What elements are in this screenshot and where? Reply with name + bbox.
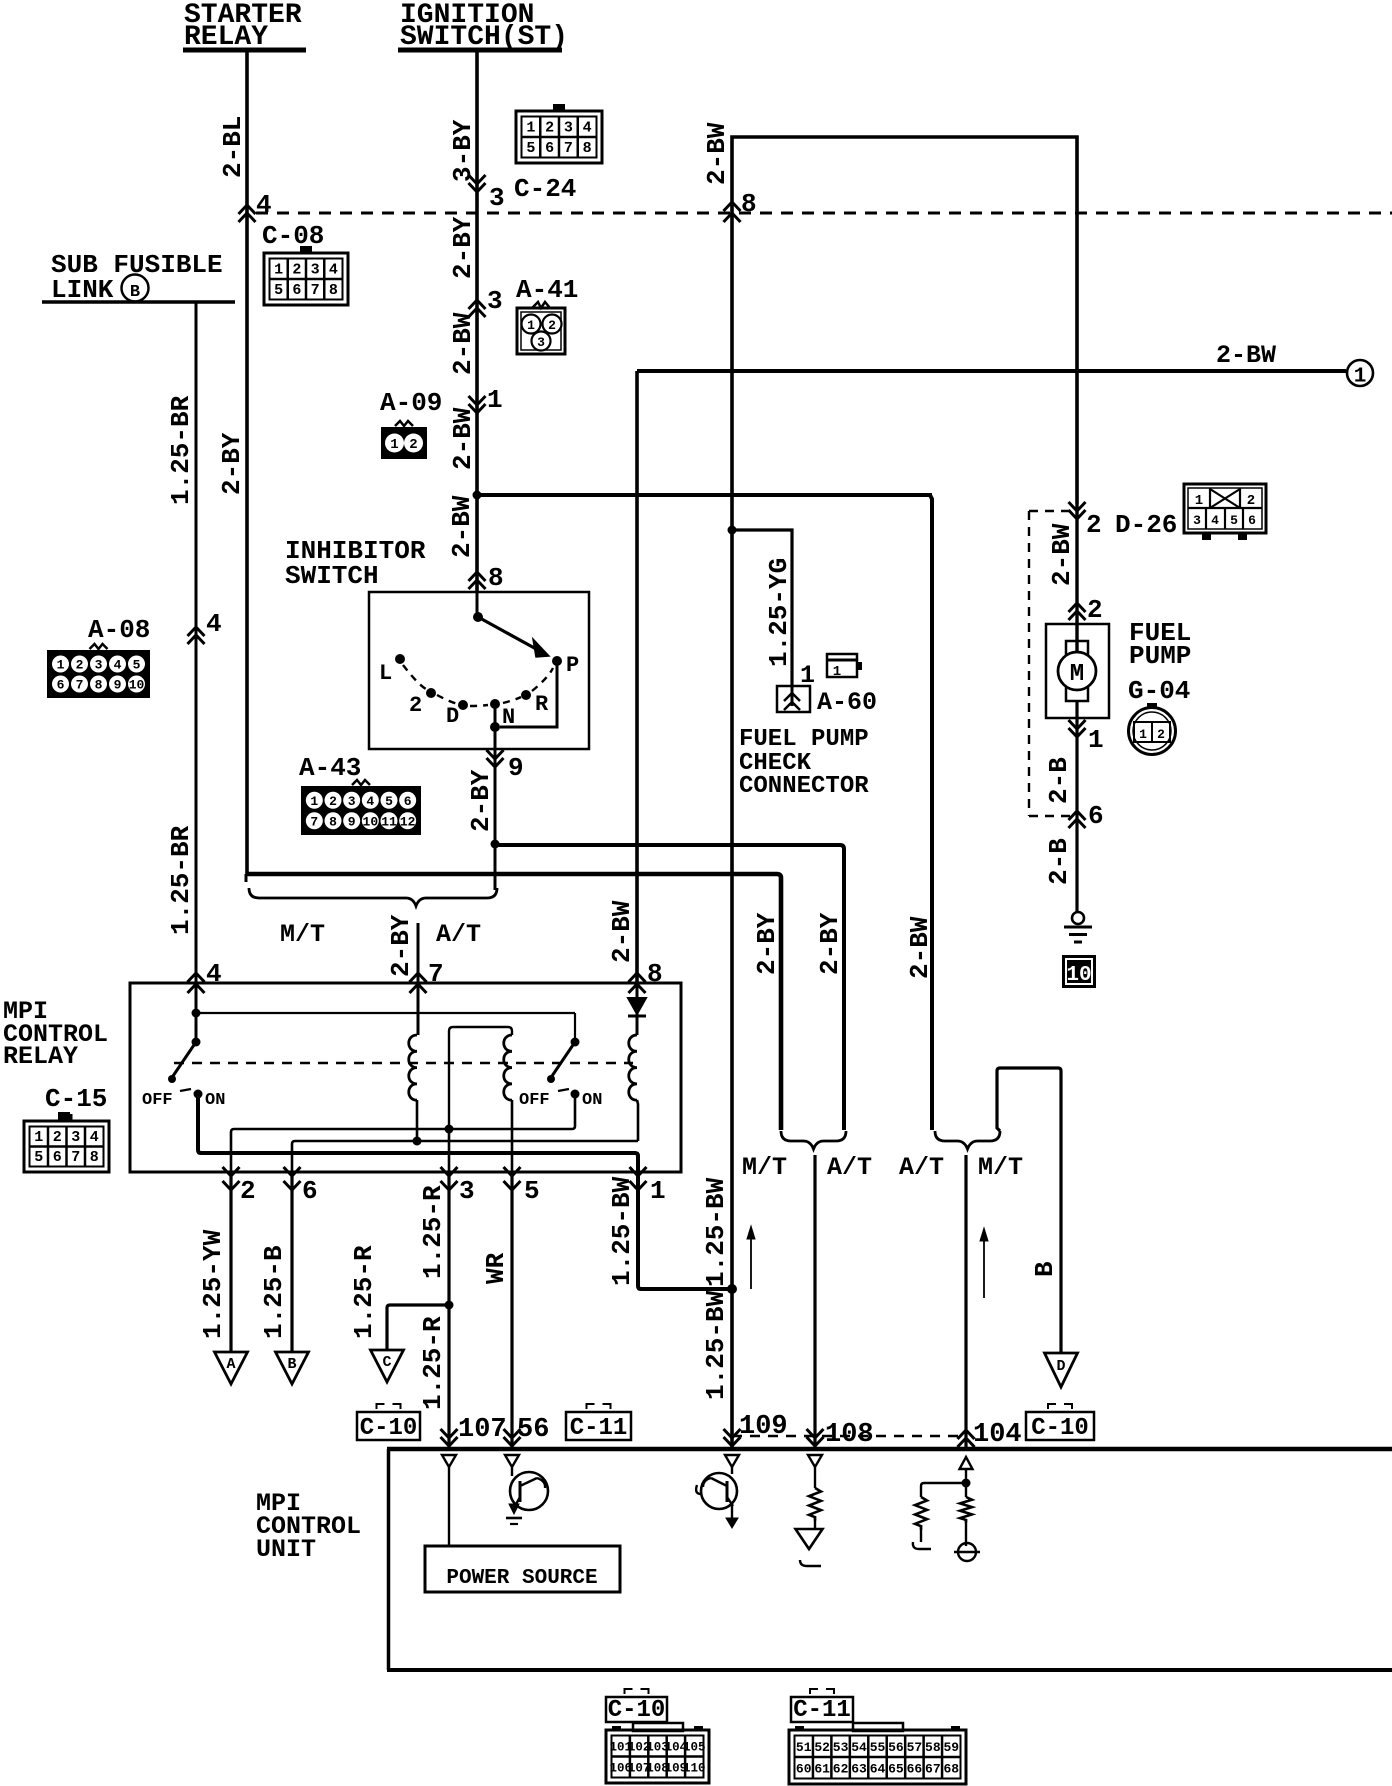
arrow terminal C — [371, 1350, 404, 1382]
wire pin2 to arrow A — [229, 1172, 232, 1352]
connector A-09 — [381, 421, 427, 459]
relay pin 8 arrow — [629, 959, 663, 993]
connector C-15 — [24, 1112, 109, 1172]
svg-text:1: 1 — [1195, 493, 1203, 509]
svg-text:1.25-BW: 1.25-BW — [701, 1290, 731, 1400]
svg-text:63: 63 — [851, 1761, 867, 1776]
svg-text:C-10: C-10 — [1031, 1415, 1089, 1442]
MPI transistor Q1 — [506, 1467, 548, 1524]
svg-text:2-BY: 2-BY — [217, 432, 247, 495]
svg-text:2-BW: 2-BW — [1216, 341, 1276, 370]
svg-text:A-41: A-41 — [516, 275, 578, 305]
wire 2-BY brace to relay pin 7 — [417, 923, 420, 983]
svg-text:4: 4 — [329, 261, 338, 278]
label 1.25-BW pin1 — [607, 1176, 637, 1286]
inhibitor contact P — [552, 653, 579, 678]
svg-text:POWER SOURCE: POWER SOURCE — [446, 1567, 597, 1590]
svg-text:12: 12 — [400, 814, 416, 829]
svg-text:CONNECTOR: CONNECTOR — [739, 773, 869, 800]
svg-text:2-BL: 2-BL — [218, 116, 248, 178]
connector arrow 8 inhibitor — [469, 563, 504, 593]
label pin 1 A-60 — [800, 661, 815, 690]
label 1.25-BR lower — [166, 825, 196, 935]
inhibitor switch wiper arm — [473, 592, 549, 657]
label 107 — [458, 1415, 507, 1445]
svg-text:2-BW: 2-BW — [702, 122, 732, 185]
MPI entry arrow 108 — [807, 1429, 824, 1446]
svg-text:B: B — [1030, 1261, 1060, 1277]
connector C-08 pin 4 pass-through arrow — [239, 190, 272, 222]
wire 2-BW vertical to MPI relay pin 8 — [635, 371, 639, 983]
svg-text:105: 105 — [683, 1741, 706, 1755]
wire 2-BW from feed down — [930, 495, 932, 1130]
relay coil3 bottom wire — [637, 1100, 638, 1141]
wire pin5 to MPI 56 — [510, 1172, 513, 1449]
label M/T 104 — [978, 1153, 1023, 1182]
svg-text:66: 66 — [907, 1761, 923, 1776]
MPI zener symbol 108 — [796, 1529, 823, 1566]
svg-text:2-BW: 2-BW — [905, 916, 935, 979]
svg-text:5: 5 — [34, 1149, 43, 1166]
svg-text:109: 109 — [739, 1412, 788, 1442]
svg-text:55: 55 — [870, 1740, 886, 1755]
relay pin3 wire through box — [448, 1129, 451, 1172]
label 2-BY wire 781 — [752, 912, 782, 975]
firewall dashed line — [256, 212, 1392, 215]
svg-text:L: L — [379, 661, 392, 686]
label A-09 — [380, 388, 442, 418]
svg-text:65: 65 — [888, 1761, 904, 1776]
svg-text:4: 4 — [114, 658, 122, 673]
inhibitor contact D — [446, 700, 468, 729]
connector A-08 — [47, 644, 150, 698]
relay pin 3 exit arrow — [441, 1167, 475, 1206]
relay pin3 riser and link to coil2 — [449, 1027, 512, 1129]
label D-26 — [1115, 510, 1177, 540]
inhibitor dashed position arc — [403, 665, 553, 706]
svg-text:C-10: C-10 — [608, 1697, 666, 1724]
svg-text:8: 8 — [90, 1149, 99, 1166]
label 2-BW mid — [448, 407, 478, 470]
label 1.25-R lower — [418, 1316, 448, 1410]
svg-text:2-BW: 2-BW — [448, 407, 478, 470]
label 1.25-YW — [198, 1229, 228, 1339]
label C-15 — [45, 1084, 107, 1114]
svg-text:62: 62 — [833, 1761, 849, 1776]
wire branch to arrow C — [387, 1305, 450, 1350]
connector A-08 pin 4 arrow — [188, 609, 222, 644]
svg-text:8: 8 — [329, 282, 338, 299]
wire 2-BW to pump — [1075, 504, 1078, 654]
fuel pump box — [1046, 624, 1109, 718]
label A/T left — [436, 920, 481, 949]
svg-text:2-BW: 2-BW — [1047, 523, 1077, 586]
svg-text:C-10: C-10 — [360, 1415, 418, 1442]
svg-text:1.25-BW: 1.25-BW — [607, 1176, 637, 1286]
svg-text:M/T: M/T — [280, 920, 325, 949]
connector C-11 bottom label — [791, 1689, 853, 1724]
svg-text:A-60: A-60 — [817, 688, 877, 717]
wire 3-BY ignition switch down — [475, 50, 479, 592]
svg-text:6: 6 — [302, 1176, 318, 1206]
svg-text:58: 58 — [925, 1740, 941, 1755]
MPI control relay box — [130, 983, 681, 1172]
svg-text:5: 5 — [526, 140, 535, 157]
relay switch1 feed — [192, 983, 201, 1042]
svg-text:3: 3 — [564, 119, 573, 136]
label C-08 — [262, 221, 324, 251]
label A/T 104 — [899, 1153, 944, 1182]
svg-text:A/T: A/T — [827, 1153, 872, 1182]
node junction riser to fuel pump check connector — [728, 526, 737, 535]
svg-text:8: 8 — [488, 563, 504, 593]
svg-text:8: 8 — [329, 814, 337, 829]
label 2-BY center — [386, 914, 416, 977]
svg-text:2-BW: 2-BW — [607, 900, 637, 963]
dashed line 109-104 — [732, 1435, 966, 1437]
svg-text:52: 52 — [814, 1740, 830, 1755]
svg-text:C-11: C-11 — [793, 1697, 851, 1724]
label 108 — [825, 1420, 874, 1450]
label B wire — [1030, 1261, 1060, 1277]
wire brace to MPI 108 — [813, 1155, 816, 1449]
svg-text:3: 3 — [489, 183, 505, 213]
connector C-24 pin 3 pass-through arrow — [469, 175, 505, 213]
svg-text:M/T: M/T — [742, 1153, 787, 1182]
svg-text:4: 4 — [256, 190, 272, 220]
svg-text:3-BY: 3-BY — [448, 119, 478, 182]
svg-text:4: 4 — [366, 794, 374, 809]
svg-text:1: 1 — [34, 1129, 43, 1146]
svg-text:3: 3 — [459, 1176, 475, 1206]
svg-text:8: 8 — [95, 678, 103, 693]
wire 2-BY from inhibitor down — [494, 749, 497, 890]
label 2-BW horizontal — [1216, 341, 1276, 370]
arrow terminal A — [215, 1352, 248, 1384]
svg-text:C-08: C-08 — [262, 221, 324, 251]
connector C-10 bottom grid — [606, 1723, 709, 1783]
svg-text:2: 2 — [1157, 727, 1165, 742]
relay coil 3 — [629, 1035, 637, 1100]
connector A-60 body — [777, 686, 810, 712]
label G-04 — [1128, 676, 1190, 706]
relay pin 7 arrow — [410, 959, 444, 993]
svg-text:ON: ON — [582, 1091, 602, 1110]
svg-text:1.25-YG: 1.25-YG — [764, 558, 794, 667]
connector arrow 9 inhibitor — [487, 750, 524, 783]
svg-text:1: 1 — [1354, 366, 1367, 389]
svg-text:7: 7 — [310, 814, 318, 829]
arrow terminal D — [1045, 1353, 1078, 1387]
wire pin1 to 109 riser — [638, 1172, 732, 1289]
wire M/T jog to arrow D — [997, 1068, 1061, 1353]
brace M/T - A/T inhibitor — [249, 888, 497, 906]
svg-text:57: 57 — [907, 1740, 923, 1755]
svg-text:6: 6 — [292, 282, 301, 299]
wire 104 node — [962, 1469, 971, 1497]
label WR — [481, 1252, 511, 1284]
svg-text:1: 1 — [833, 664, 841, 680]
pump pin 1 arrow — [1069, 720, 1104, 755]
svg-text:4: 4 — [90, 1129, 99, 1146]
brace M/T - A/T 108 — [781, 1131, 846, 1149]
label 2-BW riser — [702, 122, 732, 185]
svg-text:9: 9 — [114, 678, 122, 693]
svg-text:7: 7 — [564, 140, 573, 157]
connector C-08 — [264, 246, 348, 305]
inhibitor contact L — [379, 654, 405, 686]
relay net coil bottoms to pin 6 — [292, 1137, 638, 1173]
svg-text:RELAY: RELAY — [3, 1042, 78, 1071]
svg-text:1: 1 — [527, 318, 535, 333]
svg-text:8: 8 — [583, 140, 592, 157]
label STARTER RELAY — [183, 0, 306, 53]
svg-text:1: 1 — [526, 119, 535, 136]
svg-text:FUEL PUMP: FUEL PUMP — [739, 726, 869, 753]
MPI transistor Q2 — [696, 1467, 738, 1528]
label 1.25-R upper — [418, 1185, 448, 1279]
label 1.25-YG — [764, 558, 794, 667]
svg-text:2: 2 — [1086, 510, 1102, 540]
svg-text:5: 5 — [274, 282, 283, 299]
label A-08 — [88, 615, 150, 645]
svg-text:ON: ON — [205, 1091, 225, 1110]
node junction 2-BY branch — [491, 840, 500, 849]
connector D-26 pin 2 arrow — [1069, 502, 1102, 540]
svg-text:D-26: D-26 — [1115, 510, 1177, 540]
svg-text:5: 5 — [133, 658, 141, 673]
svg-text:C-24: C-24 — [514, 174, 576, 204]
relay net switch1-ON to pin 1 — [198, 1094, 638, 1172]
label 2-BW lower — [447, 495, 477, 558]
wire 2-BW to terminal 1 — [637, 369, 1346, 373]
label MPI CONTROL RELAY — [3, 997, 108, 1071]
wire N down out of inhibitor — [494, 704, 497, 749]
svg-text:3: 3 — [71, 1129, 80, 1146]
label C-24 — [514, 174, 576, 204]
svg-text:2: 2 — [545, 119, 554, 136]
label M/T left — [280, 920, 325, 949]
relay switch2 drop — [574, 1013, 576, 1042]
label M/T 108 — [742, 1153, 787, 1182]
svg-text:5: 5 — [524, 1176, 540, 1206]
label 2-BW pin8 — [607, 900, 637, 963]
svg-text:3: 3 — [1193, 513, 1201, 528]
label 2-BL — [218, 116, 248, 178]
svg-text:54: 54 — [851, 1740, 867, 1755]
svg-text:9: 9 — [508, 753, 524, 783]
relay switch 1 — [142, 1038, 225, 1111]
svg-text:2-B: 2-B — [1044, 757, 1074, 804]
wire 1.25-YG branch — [732, 530, 792, 686]
svg-text:1: 1 — [487, 385, 503, 415]
svg-text:7: 7 — [71, 1149, 80, 1166]
label FUEL PUMP CHECK CONNECTOR — [739, 726, 869, 800]
svg-text:60: 60 — [796, 1761, 812, 1776]
wire pin3 to MPI 107 — [445, 1172, 454, 1449]
svg-text:3: 3 — [311, 261, 320, 278]
MPI 56 input triangle — [505, 1455, 519, 1467]
svg-text:A-08: A-08 — [88, 615, 150, 645]
svg-text:1.25-R: 1.25-R — [418, 1185, 448, 1279]
terminal circled 1 — [1347, 360, 1373, 389]
inhibitor switch box — [369, 592, 589, 749]
svg-text:OFF: OFF — [519, 1091, 550, 1110]
relay coil 2 — [504, 1035, 512, 1100]
svg-text:1.25-R: 1.25-R — [349, 1245, 379, 1339]
svg-text:2-BY: 2-BY — [815, 912, 845, 975]
svg-text:56: 56 — [888, 1740, 904, 1755]
svg-text:PUMP: PUMP — [1129, 641, 1191, 671]
svg-text:9: 9 — [348, 814, 356, 829]
svg-text:51: 51 — [796, 1740, 812, 1755]
flow arrow up left — [747, 1226, 755, 1289]
label SUB FUSIBLE LINK B — [42, 250, 235, 305]
svg-text:G-04: G-04 — [1128, 676, 1190, 706]
svg-text:4: 4 — [583, 119, 592, 136]
label 1.25-B — [259, 1245, 289, 1339]
ground fuel pump — [1064, 912, 1092, 942]
connector C-11 bottom grid — [789, 1723, 966, 1784]
svg-text:1: 1 — [1088, 725, 1104, 755]
svg-text:6: 6 — [53, 1149, 62, 1166]
svg-text:A/T: A/T — [436, 920, 481, 949]
svg-text:2: 2 — [548, 318, 556, 333]
relay net switch2-ON to pin2/pin3 — [231, 1094, 575, 1172]
flow arrow up right — [980, 1228, 988, 1298]
relay pin 5 exit arrow — [504, 1167, 540, 1206]
svg-text:2: 2 — [53, 1129, 62, 1146]
inhibitor contact R — [521, 690, 549, 717]
fuel pump dashed enclosure — [1029, 511, 1070, 816]
MPI resistor network — [913, 1483, 972, 1549]
label 2-BY inhibitor — [466, 769, 496, 832]
label 56 — [517, 1415, 549, 1445]
relay coil 1 — [409, 1035, 417, 1100]
label 2-BW pump — [1047, 523, 1077, 586]
relay pin 6 exit arrow — [284, 1167, 318, 1206]
svg-text:1.25-BR: 1.25-BR — [166, 395, 196, 505]
label 1.25-BW riser upper — [701, 1177, 731, 1287]
MPI control unit box — [387, 1449, 1392, 1670]
svg-text:2: 2 — [1087, 595, 1103, 625]
relay diode — [628, 983, 646, 1035]
svg-text:56: 56 — [517, 1415, 549, 1445]
svg-text:1: 1 — [310, 794, 318, 809]
connector A-43 — [301, 780, 421, 835]
svg-text:A: A — [226, 1356, 235, 1373]
label 1.25-R branch — [349, 1245, 379, 1339]
svg-text:M: M — [1070, 661, 1084, 688]
svg-text:6: 6 — [1088, 801, 1104, 831]
svg-text:R: R — [535, 692, 549, 717]
svg-text:10: 10 — [129, 678, 145, 693]
wire pin6 to arrow B — [290, 1172, 293, 1352]
wire P contact to N column — [500, 661, 557, 727]
wire pump pin1 down — [1075, 701, 1078, 912]
svg-text:10: 10 — [1066, 964, 1091, 987]
svg-text:59: 59 — [943, 1740, 959, 1755]
svg-text:B: B — [130, 283, 140, 302]
svg-text:D: D — [446, 704, 459, 729]
svg-text:4: 4 — [206, 609, 222, 639]
inhibitor contact N — [490, 699, 515, 730]
wire 2-BL starter relay to C-08 pin 4 and down — [245, 50, 249, 874]
svg-text:1: 1 — [274, 261, 283, 278]
MPI 107 input triangle — [442, 1455, 456, 1467]
label 104 — [973, 1420, 1022, 1450]
svg-text:2: 2 — [409, 693, 422, 718]
svg-text:C-11: C-11 — [570, 1415, 628, 1442]
connector G-04 — [1129, 703, 1176, 755]
svg-text:A-09: A-09 — [380, 388, 442, 418]
svg-text:1.25-BR: 1.25-BR — [166, 825, 196, 935]
svg-text:6: 6 — [404, 794, 412, 809]
label 109 — [739, 1412, 788, 1442]
relay coil 1 feed — [417, 983, 420, 1035]
label 2-B upper — [1044, 757, 1074, 804]
label 2-BW upper — [448, 312, 478, 375]
svg-text:5: 5 — [1230, 513, 1238, 528]
svg-text:C-15: C-15 — [45, 1084, 107, 1114]
svg-text:C: C — [382, 1354, 391, 1371]
svg-text:104: 104 — [973, 1420, 1022, 1450]
label INHIBITOR SWITCH — [285, 536, 426, 591]
svg-text:SWITCH: SWITCH — [285, 561, 379, 591]
label MPI CONTROL UNIT — [256, 1489, 361, 1564]
svg-text:3: 3 — [95, 658, 103, 673]
label FUEL PUMP — [1129, 618, 1191, 671]
relay pin 4 arrow — [188, 959, 222, 993]
svg-text:1: 1 — [57, 658, 65, 673]
wire 2-BW horizontal feed to right — [475, 493, 932, 497]
svg-text:7: 7 — [311, 282, 320, 299]
label 2-BY wire 844 — [815, 912, 845, 975]
svg-text:P: P — [566, 653, 579, 678]
fuel pump motor — [1058, 641, 1096, 701]
svg-text:1.25-B: 1.25-B — [259, 1245, 289, 1339]
svg-text:2: 2 — [409, 437, 417, 453]
svg-text:107: 107 — [458, 1415, 507, 1445]
relay internal bus top — [196, 1012, 575, 1014]
svg-text:61: 61 — [814, 1761, 830, 1776]
label 3-BY — [448, 119, 478, 182]
pump pin 2 arrow — [1069, 595, 1103, 625]
svg-text:2-BY: 2-BY — [752, 912, 782, 975]
MPI entry arrow 109 — [724, 1429, 741, 1446]
svg-text:6: 6 — [545, 140, 554, 157]
MPI resistor R1 — [809, 1467, 821, 1529]
label 2-BY on C-08 wire — [217, 432, 247, 495]
svg-text:4: 4 — [1211, 513, 1219, 528]
arrow terminal B — [276, 1352, 309, 1384]
node N junction — [490, 722, 500, 732]
svg-text:10: 10 — [363, 814, 379, 829]
MPI source symbol 104 — [954, 1543, 980, 1561]
MPI entry arrow 107 — [441, 1429, 458, 1446]
svg-text:6: 6 — [57, 678, 65, 693]
label A-60 — [817, 688, 877, 717]
wire 2-BW right riser — [732, 137, 1077, 1449]
svg-text:110: 110 — [683, 1762, 706, 1776]
MPI 104 input triangle — [960, 1457, 973, 1469]
relay coil2 to pin 5 — [511, 1100, 514, 1172]
MPI 109 input triangle — [725, 1455, 739, 1467]
svg-text:A-43: A-43 — [299, 753, 361, 783]
svg-text:2: 2 — [240, 1176, 256, 1206]
inhibitor contact 2 — [409, 688, 436, 718]
MPI entry arrow 56 — [504, 1429, 521, 1446]
